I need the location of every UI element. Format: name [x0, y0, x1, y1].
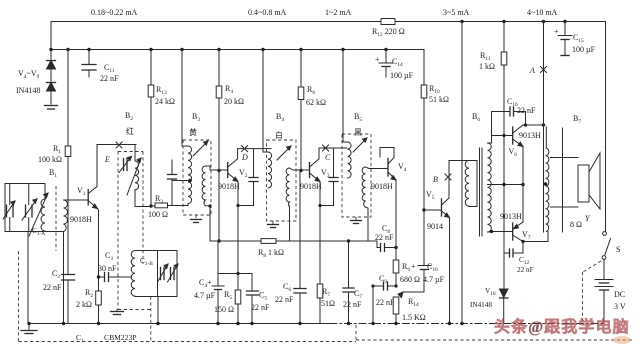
potentiometer R14 with wiper arrow: [393, 292, 403, 324]
svg-text:30 nF: 30 nF: [98, 264, 117, 273]
capacitor C5: [247, 274, 259, 324]
coupling capacitor at node C: [318, 148, 338, 207]
B6 secondary winding: [488, 143, 492, 232]
ferrite core dashed: [55, 186, 57, 251]
svg-text:C: C: [325, 153, 331, 162]
svg-text:黑: 黑: [354, 128, 362, 137]
B3 primary winding with arrow: [182, 50, 208, 206]
oscillator tank coil (bottom, inside C1 box): [131, 251, 157, 297]
wire: B6 secondary top riser to C16 and V6 base: [491, 112, 493, 144]
svg-text:头条@跟我学电脑: 头条@跟我学电脑: [494, 317, 630, 336]
svg-text:62 kΩ: 62 kΩ: [306, 98, 326, 107]
ground below diode chain: [45, 106, 58, 110]
svg-text:白: 白: [275, 130, 283, 140]
svg-text:DC: DC: [614, 290, 625, 299]
output transformer B7: [544, 22, 563, 233]
transistor V2: [210, 159, 238, 182]
B4 primary winding with arrow: [263, 50, 291, 188]
B4 secondary winding: [286, 168, 309, 241]
svg-text:8 Ω: 8 Ω: [570, 220, 582, 229]
resistor R9: [393, 248, 399, 288]
junction dots on rails: [49, 20, 566, 51]
wire: +V top rail: [51, 21, 606, 23]
svg-text:A: A: [529, 66, 535, 75]
oscillator transformer B2 dashed box: [118, 152, 151, 342]
svg-text:B: B: [433, 175, 438, 184]
wire: B6 secondary bottom to V7 base: [492, 231, 513, 233]
wire: tank left side: [4, 184, 6, 232]
resistor R5: [235, 274, 241, 324]
transistor V5: [424, 198, 450, 218]
wire: B6 centre tap to bias line: [488, 184, 524, 186]
wire: V1 collector riser to node E: [97, 145, 136, 187]
svg-text:9013H: 9013H: [500, 212, 522, 221]
tuning gang C1-A frame top wire: [5, 183, 45, 185]
B2 trimmer symbol: [119, 157, 132, 173]
node E pin mark: [116, 142, 122, 148]
svg-text:D: D: [241, 153, 248, 162]
transistor V4: [380, 148, 396, 181]
IF transformer B5 dashed box: [342, 134, 371, 217]
svg-text:9018H: 9018H: [218, 182, 240, 191]
resistor R7: [317, 284, 323, 324]
resistor R12: [381, 19, 395, 25]
node D pin mark: [242, 146, 248, 152]
coupling capacitor at node D: [236, 149, 258, 207]
capacitor C4 electrolytic: [207, 274, 224, 324]
capacitor C16: [492, 107, 526, 125]
ground of B2 box: [111, 310, 124, 315]
svg-text:0.18~0.22 mA: 0.18~0.22 mA: [91, 8, 138, 17]
svg-text:4~10 mA: 4~10 mA: [527, 8, 558, 17]
capacitor C6: [294, 289, 306, 324]
wire: V1 emitter down to R2: [98, 209, 99, 324]
wire: V6 collector to B7 top: [523, 124, 544, 126]
svg-text:22 nF: 22 nF: [343, 300, 362, 309]
svg-text:1 kΩ: 1 kΩ: [479, 62, 495, 71]
wire: V4 emitter drop: [395, 180, 397, 248]
wire: right edge drop from top rail to switch: [605, 22, 607, 232]
svg-text:20 kΩ: 20 kΩ: [224, 97, 244, 106]
svg-text:9013H: 9013H: [519, 131, 541, 140]
B3 ground: [191, 215, 202, 223]
B6 core lines: [480, 148, 483, 236]
resistor R8: [261, 239, 276, 244]
svg-text:9018H: 9018H: [70, 215, 92, 224]
capacitor C9: [371, 282, 396, 324]
svg-text:+: +: [207, 278, 212, 287]
svg-text:22 nF: 22 nF: [376, 298, 395, 307]
svg-text:4.7 µF: 4.7 µF: [423, 275, 445, 284]
svg-text:0.4~0.8 mA: 0.4~0.8 mA: [248, 8, 287, 17]
coil B1 secondary: [64, 200, 68, 324]
diode V10: [500, 289, 509, 324]
svg-text:51Ω: 51Ω: [321, 299, 335, 308]
resistor R6 with wire: [298, 50, 304, 289]
wire: V2 emitter drop: [237, 182, 239, 274]
svg-text:22 nF: 22 nF: [517, 106, 536, 115]
IC CBM223P dashed outline: [19, 251, 633, 342]
bus junction dots: [27, 322, 463, 325]
dashed link switch to IC border: [583, 261, 602, 322]
wire: ground bus dash-dot part: [330, 323, 604, 325]
wire: tank bottom: [5, 231, 64, 233]
battery DC 3V: [595, 260, 613, 324]
capacitor C12: [504, 242, 523, 258]
svg-text:IN4148: IN4148: [470, 301, 492, 309]
svg-text:100 µF: 100 µF: [572, 45, 596, 54]
svg-text:E: E: [104, 155, 110, 164]
capacitor C14 electrolytic: [375, 50, 393, 78]
resistor R4 with wire: [216, 50, 222, 274]
antenna coil B1 primary: [29, 184, 48, 237]
resistor R1 with wire: [65, 50, 71, 275]
wire: emitter rail V6-V7: [522, 147, 524, 223]
capacitor C11: [82, 50, 96, 78]
B5 ground: [351, 217, 362, 224]
svg-text:1~2 mA: 1~2 mA: [325, 8, 352, 17]
svg-text:红: 红: [126, 126, 134, 136]
variable capacitor C1-B box: [158, 251, 179, 297]
svg-text:9014: 9014: [427, 222, 443, 231]
svg-text:3~5 mA: 3~5 mA: [443, 8, 470, 17]
watermark orange mark bottom right: [613, 336, 631, 344]
svg-text:+: +: [554, 27, 559, 36]
resistor R13 with wire: [148, 50, 154, 208]
svg-text:+: +: [411, 262, 416, 271]
svg-text:4.7 µF: 4.7 µF: [194, 291, 216, 300]
wire: second supply rail: [51, 49, 424, 51]
svg-text:+: +: [375, 55, 380, 64]
transistor V1: [64, 187, 98, 209]
resistor R10 with wire: [421, 50, 427, 264]
svg-text:100 µF: 100 µF: [390, 71, 414, 80]
capacitor C13 (unlabeled, tap coupling): [168, 160, 192, 206]
svg-text:S: S: [616, 245, 620, 254]
svg-text:150 Ω: 150 Ω: [214, 305, 234, 314]
transistor V3: [310, 159, 321, 182]
B2 oscillator winding: [127, 145, 151, 207]
transistor V6: [513, 125, 523, 147]
svg-text:51 kΩ: 51 kΩ: [429, 95, 449, 104]
node B pin mark: [445, 174, 451, 180]
wire: emitter bias bus y=241 with R8: [210, 240, 377, 242]
wire: V5 emitter to bus: [449, 218, 451, 324]
ground at bus left end: [21, 324, 37, 334]
svg-text:9018H: 9018H: [371, 182, 393, 191]
svg-text:IN4148: IN4148: [16, 86, 40, 95]
resistor R11 with wire: [501, 22, 507, 289]
variable capacitor C1-A section 1: [3, 184, 15, 232]
capacitor C15 electrolytic: [554, 22, 572, 56]
wire: V2 collector riser and node D wire: [238, 149, 271, 159]
wire: left drop rail1 to rail2: [50, 22, 52, 50]
B3 secondary winding: [202, 166, 211, 241]
node A marker: [529, 66, 547, 75]
variable capacitor C1-A section 2: [22, 184, 37, 232]
transistor V7: [513, 222, 525, 243]
svg-text:9018H: 9018H: [300, 182, 322, 191]
wire: 3~5mA branch down to bus: [461, 22, 463, 324]
svg-text:CBM223P: CBM223P: [104, 333, 137, 342]
svg-text:黄: 黄: [189, 127, 197, 137]
switch S: [602, 232, 610, 260]
capacitor C2: [62, 275, 75, 324]
svg-text:1.5 KΩ: 1.5 KΩ: [402, 313, 426, 322]
svg-text:3 V: 3 V: [614, 302, 626, 311]
wire: V3 collector riser and node C wire: [319, 148, 347, 159]
node C pin mark: [323, 145, 329, 151]
wire: V5 collector riser to B6: [449, 161, 469, 199]
IF transformer B4 dashed box: [267, 140, 297, 221]
svg-text:2 kΩ: 2 kΩ: [76, 300, 92, 309]
B5 secondary winding: [362, 167, 388, 241]
speaker Y: [578, 153, 600, 209]
wire: V7 collector to B7 bottom: [523, 232, 548, 242]
B5 primary winding with arrow: [343, 50, 367, 178]
svg-text:22 nF: 22 nF: [100, 74, 119, 83]
capacitor C10 electrolytic: [403, 262, 431, 292]
svg-text:24 kΩ: 24 kΩ: [155, 97, 175, 106]
svg-text:22 nF: 22 nF: [517, 266, 534, 274]
svg-text:22 nF: 22 nF: [43, 283, 62, 292]
resistor R2: [96, 291, 102, 305]
driver transformer B6 primary winding: [465, 161, 477, 207]
resistor R3: [151, 203, 184, 208]
wire: C1-B box to bus: [157, 297, 159, 324]
svg-text:22 nF: 22 nF: [251, 303, 270, 312]
wire: tank bottom drop to bus: [27, 232, 29, 324]
wire: B7 secondary to speaker: [551, 158, 579, 208]
IF transformer B3 dashed box: [183, 140, 211, 215]
wire: ground bus bottom (solid part): [29, 323, 330, 325]
svg-text:100 kΩ: 100 kΩ: [38, 155, 62, 164]
diode chain V4~V9: [47, 50, 56, 105]
svg-text:680 Ω: 680 Ω: [400, 275, 420, 284]
svg-text:22 nF: 22 nF: [375, 233, 394, 242]
wire: V3 emitter drop to R7: [319, 182, 321, 285]
svg-text:100 Ω: 100 Ω: [148, 210, 168, 219]
emitter node wire y=273 (V2 stage): [218, 273, 252, 275]
svg-text:22 nF: 22 nF: [275, 295, 294, 304]
capacitor C8: [377, 241, 396, 252]
watermark red text: [494, 317, 630, 336]
capacitor C7: [343, 241, 354, 324]
capacitor C3: [99, 273, 132, 282]
B4 ground: [268, 221, 279, 228]
